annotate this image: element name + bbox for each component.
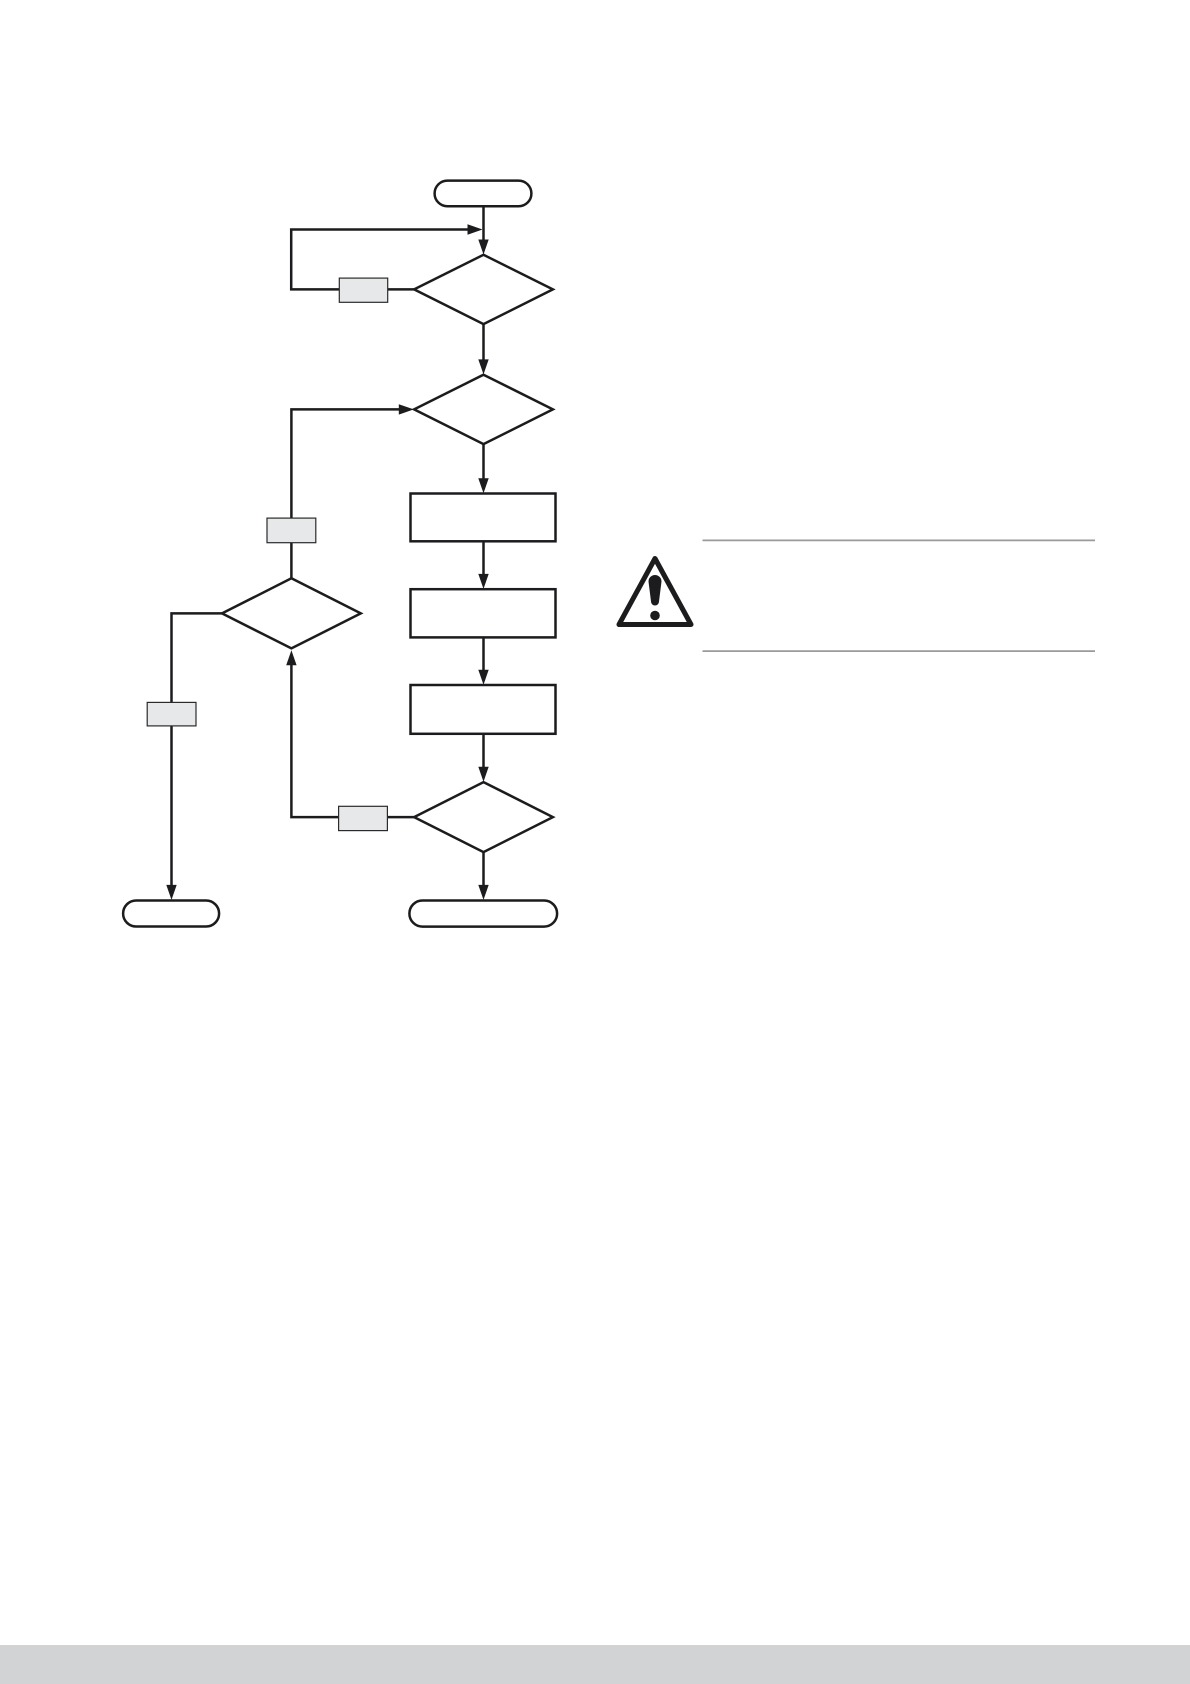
arrowhead loop into start wire [468, 224, 483, 234]
warning triangle [619, 559, 691, 625]
arrowhead into D4 bottom [286, 650, 296, 665]
wire D2 to process P1 [482, 444, 485, 480]
wire P2 to P3 [482, 637, 485, 671]
label box on wire D4 to end left [147, 702, 196, 726]
arrowhead into P2 [478, 574, 488, 589]
arrowhead into P3 [478, 670, 488, 685]
wire D1 to D2 [482, 324, 485, 361]
wire start to decision D1 [482, 206, 485, 241]
decision D1 [414, 255, 553, 324]
arrowhead into D3 top [478, 767, 488, 782]
process P2 [411, 589, 556, 637]
terminator start [435, 181, 532, 207]
process P3 [411, 685, 556, 734]
wire D4 top to D2 left [291, 409, 399, 578]
arrowhead into D2 top [478, 359, 488, 374]
warning exclamation dot [650, 611, 660, 621]
decision D2 [414, 375, 553, 444]
warning exclamation bar [649, 575, 662, 606]
footer gray bar [0, 1645, 1190, 1684]
arrowhead into D2 left [399, 404, 414, 414]
terminator end left [123, 901, 219, 927]
decision D3 [414, 782, 553, 852]
arrowhead into terminator end left [166, 885, 176, 900]
wire P1 to P2 [482, 541, 485, 576]
arrowhead into P1 [478, 478, 488, 493]
decision D4 [222, 578, 361, 648]
gray rule above caution note [703, 539, 1096, 541]
arrowhead into D1 top [478, 240, 488, 255]
label box on wire D3 to D4 [339, 806, 388, 830]
wire P3 to D3 [482, 734, 485, 769]
label box on wire D4 to D2 [267, 518, 316, 543]
terminator end right [409, 901, 557, 927]
wire D3 bottom to terminator end right [482, 852, 485, 885]
arrowhead into terminator end right [478, 885, 488, 900]
wire D3 left up to D4 bottom [291, 664, 414, 817]
label box on loop wire of D1 [339, 278, 387, 302]
process P1 [411, 494, 556, 542]
wire loop D1 left back to top [291, 230, 468, 290]
gray rule below caution note [703, 650, 1096, 652]
wire D4 left down to terminator end left [172, 613, 223, 885]
